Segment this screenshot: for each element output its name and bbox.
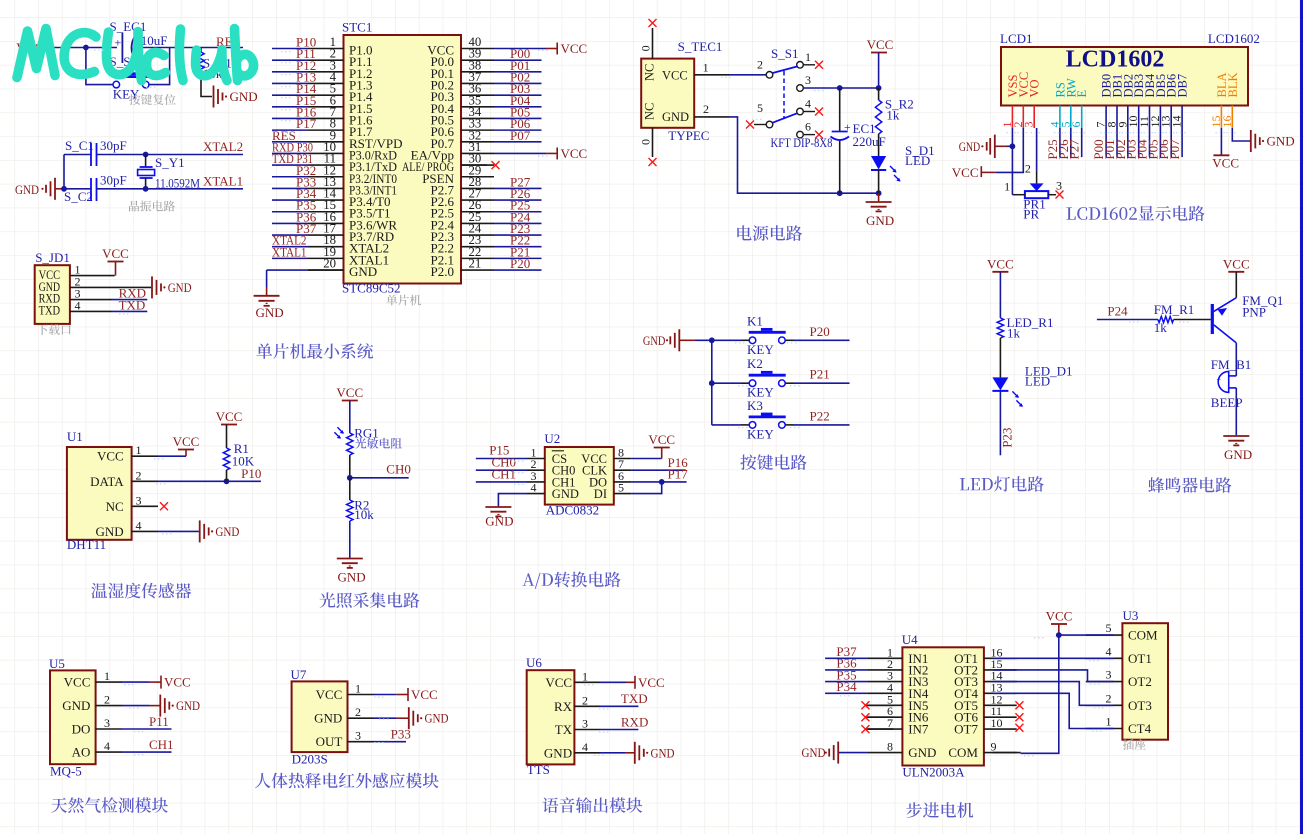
svg-text:ADC0832: ADC0832 bbox=[546, 503, 599, 518]
wire U4 pin8 to GND bbox=[838, 752, 868, 754]
svg-text:GND: GND bbox=[230, 89, 258, 104]
svg-text:VCC: VCC bbox=[648, 432, 675, 447]
wire mcu pin 20 GND bbox=[267, 269, 308, 271]
caption mcu gray bbox=[386, 295, 421, 306]
svg-text:LCD1: LCD1 bbox=[1000, 31, 1033, 46]
svg-text:TXD: TXD bbox=[119, 298, 146, 313]
svg-text:VCC: VCC bbox=[97, 449, 124, 464]
svg-text:XTAL1: XTAL1 bbox=[272, 244, 307, 259]
wire lcd pin1 VSS to GND bbox=[1011, 128, 1013, 146]
junction XTAL2 node bbox=[143, 152, 149, 158]
svg-text:GND: GND bbox=[176, 698, 200, 713]
svg-text:5: 5 bbox=[1106, 621, 1112, 635]
caption light collection circuit bbox=[320, 592, 420, 608]
svg-text:VCC: VCC bbox=[561, 41, 588, 56]
power port GND (U1) bbox=[199, 520, 201, 542]
power port VCC (mcu pin40) bbox=[546, 48, 557, 50]
svg-text:LED: LED bbox=[1025, 373, 1050, 388]
wire reset node down to key switch S_S2 bbox=[86, 48, 114, 85]
svg-text:OT3: OT3 bbox=[1128, 698, 1152, 713]
wire mcu right pin 39 net P00 bbox=[494, 59, 542, 61]
svg-text:30pF: 30pF bbox=[100, 173, 127, 188]
svg-text:P20: P20 bbox=[810, 324, 830, 339]
svg-text:TXD: TXD bbox=[621, 691, 648, 706]
wire P24 to FM_R1 bbox=[1097, 319, 1158, 321]
wire U6 pin2 net TXD bbox=[600, 705, 638, 707]
svg-text:GND: GND bbox=[802, 745, 826, 760]
svg-text:NC: NC bbox=[643, 103, 657, 120]
power port GND (reset circuit) bbox=[213, 86, 215, 108]
svg-text:1: 1 bbox=[1004, 179, 1010, 193]
mcu pin 30 no-connect X bbox=[461, 164, 487, 166]
capacitor EC1 220uF bbox=[839, 88, 841, 131]
caption crystal circuit gray bbox=[129, 201, 175, 212]
wire U2 pin5 up to pin6 bbox=[632, 482, 662, 494]
svg-text:OT2: OT2 bbox=[1128, 674, 1152, 689]
svg-text:GND: GND bbox=[866, 213, 894, 228]
svg-text:TTS: TTS bbox=[527, 762, 550, 777]
caption reset circuit gray bbox=[129, 94, 176, 105]
wire U2 pin2 net CH0 bbox=[476, 469, 527, 471]
power port GND (mcu) bbox=[266, 287, 268, 296]
wire VCC to LED_R1 bbox=[999, 272, 1001, 318]
svg-text:E: E bbox=[1075, 90, 1089, 98]
U4 pin10 no-connect X bbox=[1015, 724, 1023, 732]
svg-text:LED: LED bbox=[905, 153, 930, 168]
wire mcu right pin 22 net P21 bbox=[494, 257, 542, 259]
power port GND (S_JD1) bbox=[151, 276, 153, 298]
wire U4 pin9 COM stub bbox=[993, 752, 1021, 754]
wire S_C2 to XTAL1 bbox=[97, 188, 244, 190]
wire U2 pin1 net P15 bbox=[476, 458, 527, 460]
svg-text:20: 20 bbox=[323, 257, 336, 271]
svg-text:10k: 10k bbox=[354, 507, 374, 522]
junction key K2 bbox=[709, 380, 715, 386]
svg-text:S_Y1: S_Y1 bbox=[155, 155, 185, 170]
logo MCUclub watermark bbox=[17, 29, 254, 81]
lcd LCD1602 body bbox=[1001, 47, 1248, 106]
wire S_EC1 to RES net bbox=[135, 47, 244, 49]
wire U2 pin3 net CH1 bbox=[476, 481, 527, 483]
svg-text:NC: NC bbox=[106, 499, 124, 514]
wire U6 pin3 net RXD bbox=[600, 729, 638, 731]
svg-text:10K: 10K bbox=[232, 453, 255, 468]
mcu pin 29 stub bbox=[461, 176, 487, 178]
pin 2 S_JD1 bbox=[70, 286, 151, 288]
svg-text:VCC: VCC bbox=[102, 246, 129, 261]
svg-text:1: 1 bbox=[1106, 715, 1112, 729]
svg-text:STC89C52: STC89C52 bbox=[342, 281, 401, 296]
pin 1 S_JD1 bbox=[70, 275, 115, 277]
wire U5 pin3 net P11 bbox=[122, 728, 172, 730]
svg-text:VCC: VCC bbox=[336, 385, 363, 400]
svg-text:GND: GND bbox=[168, 280, 192, 295]
junction EC1 top bbox=[837, 85, 843, 91]
svg-text:VCC: VCC bbox=[173, 434, 200, 449]
wire mcu left pin 9 net RES bbox=[272, 141, 308, 143]
wire mcu pin 31 VCC bbox=[494, 152, 546, 154]
svg-text:4: 4 bbox=[136, 518, 142, 532]
wire R2 to GND bbox=[349, 521, 351, 558]
svg-text:9: 9 bbox=[991, 740, 997, 754]
wire S_TEC1 pin1 to switch bbox=[694, 74, 729, 76]
wire U2 pin7 net P16 bbox=[632, 469, 686, 471]
junction lcd GND node bbox=[1010, 143, 1016, 149]
svg-text:VO: VO bbox=[1028, 79, 1042, 97]
wire U2 pin4 to GND bbox=[498, 494, 527, 507]
svg-text:GND: GND bbox=[96, 524, 124, 539]
led LED_D1 emission arrows bbox=[1012, 391, 1023, 407]
svg-text:P20: P20 bbox=[510, 256, 530, 271]
svg-text:10: 10 bbox=[991, 716, 1003, 730]
svg-text:4: 4 bbox=[805, 97, 811, 111]
wire FM_R1 to base bbox=[1174, 319, 1211, 321]
wire U4 net P37 bbox=[825, 657, 868, 659]
wire U3 pin5 COM to VCC bbox=[1059, 634, 1114, 636]
svg-text:P33: P33 bbox=[391, 727, 411, 742]
svg-text:P23: P23 bbox=[999, 428, 1014, 448]
svg-text:VCC: VCC bbox=[952, 165, 979, 180]
svg-text:CH0: CH0 bbox=[386, 462, 411, 477]
caption lcd display circuit bbox=[1067, 206, 1205, 222]
wire mcu right pin 38 net P01 bbox=[494, 71, 542, 73]
svg-text:4: 4 bbox=[531, 481, 537, 495]
svg-text:P17: P17 bbox=[296, 116, 317, 131]
wire U2 pin8 to VCC bbox=[632, 458, 662, 460]
wire mcu right pin 35 net P04 bbox=[494, 106, 542, 108]
power port VCC (lcd pin15) bbox=[1213, 154, 1229, 156]
svg-text:KEY: KEY bbox=[747, 342, 774, 357]
svg-text:OT7: OT7 bbox=[954, 722, 978, 737]
svg-text:1k: 1k bbox=[1154, 320, 1168, 335]
svg-text:+: + bbox=[115, 36, 122, 50]
svg-text:GND: GND bbox=[959, 139, 981, 154]
junction CH0 node bbox=[347, 475, 353, 481]
svg-text:1: 1 bbox=[104, 669, 110, 683]
wire GND to crystal node bbox=[55, 188, 64, 190]
svg-text:S_C1: S_C1 bbox=[65, 138, 94, 153]
svg-text:3: 3 bbox=[1106, 668, 1112, 682]
svg-text:P17: P17 bbox=[668, 467, 689, 482]
wire S_S1 pin3 to VCC rail bbox=[804, 87, 879, 89]
wire lcd pin3 VO to potentiometer bbox=[1036, 128, 1038, 171]
svg-text:VCC: VCC bbox=[662, 69, 688, 83]
svg-text:4: 4 bbox=[1106, 644, 1112, 658]
svg-text:5: 5 bbox=[618, 481, 624, 495]
wire mcu left pin 15 net P35 bbox=[272, 211, 308, 213]
power port GND (U6) bbox=[625, 752, 634, 754]
svg-text:PNP: PNP bbox=[1242, 304, 1266, 319]
wire mcu left pin 16 net P36 bbox=[272, 222, 308, 224]
svg-text:XTAL2: XTAL2 bbox=[203, 139, 243, 154]
junction XTAL1 node bbox=[143, 186, 149, 192]
S_TEC1 top pin 0 no-connect bbox=[652, 28, 654, 59]
power port VCC (U6) bbox=[626, 681, 635, 683]
svg-text:U4: U4 bbox=[902, 632, 918, 647]
svg-text:KFT DIP-8X8: KFT DIP-8X8 bbox=[771, 136, 833, 150]
wire mcu left pin 18 net XTAL2 bbox=[272, 246, 308, 248]
caption stepper motor bbox=[906, 802, 973, 818]
svg-text:VCC: VCC bbox=[1212, 155, 1239, 170]
wire S_TEC1 pin2 GND route bbox=[694, 116, 729, 118]
svg-text:GND: GND bbox=[338, 570, 366, 585]
svg-text:10uF: 10uF bbox=[141, 33, 168, 48]
svg-text:GND: GND bbox=[215, 524, 239, 539]
svg-text:S_S1: S_S1 bbox=[771, 46, 798, 61]
svg-text:OUT: OUT bbox=[316, 734, 343, 749]
svg-text:4: 4 bbox=[75, 298, 81, 312]
wire LED_R1 to LED_D1 bbox=[999, 338, 1001, 377]
svg-text:6: 6 bbox=[805, 120, 811, 134]
wire mcu left pin 19 net XTAL1 bbox=[272, 257, 308, 259]
wire mcu left pin 13 net P33 bbox=[272, 187, 308, 189]
svg-text:U7: U7 bbox=[291, 667, 307, 682]
svg-text:VCC: VCC bbox=[987, 256, 1014, 271]
svg-text:1k: 1k bbox=[886, 108, 900, 123]
power port GND (lcd pin16) bbox=[1250, 130, 1252, 152]
wire GND to key bus bbox=[679, 339, 695, 341]
net labels P25 P26 P27 rotated bbox=[1059, 128, 1061, 157]
svg-text:P24: P24 bbox=[1107, 304, 1128, 319]
svg-text:3: 3 bbox=[136, 493, 142, 507]
S_TEC1 bottom pin 0 no-connect bbox=[652, 128, 654, 157]
pr1 pin3 no-connect X bbox=[1048, 194, 1056, 196]
U4 pin7 no-connect X bbox=[866, 728, 893, 730]
svg-text:GND: GND bbox=[485, 514, 513, 529]
svg-text:VCC: VCC bbox=[64, 675, 91, 690]
svg-text:VCC: VCC bbox=[638, 675, 665, 690]
U4 pin5 no-connect X bbox=[866, 704, 893, 706]
svg-text:3: 3 bbox=[582, 717, 588, 731]
wire U1 pin2 DATA to P10 bbox=[158, 480, 261, 482]
junction VCC COM node bbox=[1056, 632, 1062, 638]
svg-text:NC: NC bbox=[643, 64, 657, 81]
svg-text:VCC: VCC bbox=[545, 675, 572, 690]
wire mcu right pin 28 net P27 bbox=[494, 187, 542, 189]
svg-text:GND: GND bbox=[256, 305, 284, 320]
wire K3 to net P22 bbox=[786, 424, 794, 426]
wire mcu right pin 32 net P07 bbox=[494, 141, 542, 143]
svg-text:GND: GND bbox=[314, 711, 342, 726]
pr1 pin1 wire to GND net bbox=[1012, 194, 1025, 196]
svg-text:P07: P07 bbox=[1167, 139, 1182, 160]
svg-text:7: 7 bbox=[887, 716, 893, 730]
junction key K1 bbox=[709, 337, 715, 343]
junction S_R2 top bbox=[876, 85, 882, 91]
wire VCC to RG1 bbox=[349, 401, 351, 434]
potentiometer PR1 bbox=[1036, 171, 1038, 184]
wire lcd pin15 BLA to VCC bbox=[1220, 128, 1222, 155]
svg-text:VCC: VCC bbox=[1046, 609, 1073, 624]
wire U5 pin2 to GND bbox=[122, 705, 149, 707]
wire mcu right pin 25 net P24 bbox=[494, 222, 542, 224]
wire node to CH0 label bbox=[350, 477, 409, 479]
wire U4 net P35 bbox=[825, 681, 868, 683]
svg-text:XTAL1: XTAL1 bbox=[203, 174, 243, 189]
svg-text:DATA: DATA bbox=[90, 474, 124, 489]
svg-text:RG1: RG1 bbox=[354, 425, 379, 440]
wire VCC to reset node bbox=[47, 47, 117, 49]
svg-text:1k: 1k bbox=[1007, 325, 1021, 340]
svg-text:TXD: TXD bbox=[39, 303, 61, 317]
svg-text:3: 3 bbox=[104, 716, 110, 730]
wire U7 pin1 to VCC bbox=[374, 694, 397, 696]
svg-text:D203S: D203S bbox=[292, 752, 328, 767]
wire U2 pin6 net P17 bbox=[632, 481, 687, 483]
sheet border right edge bbox=[1300, 0, 1303, 834]
caption led circuit bbox=[960, 476, 1044, 492]
wire bus to K1 bbox=[712, 339, 741, 341]
svg-text:OT1: OT1 bbox=[1128, 651, 1152, 666]
wire U7 pin3 net P33 bbox=[374, 741, 406, 743]
junction DO DI bbox=[659, 479, 665, 485]
wire mcu right pin 37 net P02 bbox=[494, 82, 542, 84]
wire OT1 row16 to U3 pin4 bbox=[993, 657, 1114, 659]
wire RG1 to node CH0 bbox=[349, 455, 351, 478]
wire mcu left pin 11 net TXD P31 bbox=[272, 164, 308, 166]
svg-text:GND: GND bbox=[1224, 447, 1252, 462]
svg-text:8: 8 bbox=[887, 740, 893, 754]
svg-text:2: 2 bbox=[703, 102, 709, 116]
svg-text:1: 1 bbox=[355, 682, 361, 696]
svg-text:COM: COM bbox=[1128, 628, 1158, 643]
svg-text:GND: GND bbox=[349, 264, 377, 279]
wire mcu left pin 2 net P11 bbox=[272, 59, 308, 61]
caption voice output module bbox=[543, 797, 643, 813]
power port GND (light) bbox=[337, 558, 363, 560]
junction crystal bottom-left bbox=[61, 186, 67, 192]
svg-text:P07: P07 bbox=[510, 128, 531, 143]
S_S1 lever pin5 to pin4 bbox=[773, 113, 797, 122]
svg-text:GND: GND bbox=[15, 182, 39, 197]
svg-text:CT4: CT4 bbox=[1128, 721, 1152, 736]
wire mcu left pin 1 net P10 bbox=[272, 48, 308, 50]
svg-text:3: 3 bbox=[355, 729, 361, 743]
power port VCC (U7) bbox=[397, 694, 408, 696]
svg-text:30pF: 30pF bbox=[100, 138, 127, 153]
svg-text:FM_B1: FM_B1 bbox=[1211, 357, 1251, 372]
svg-text:RXD: RXD bbox=[621, 714, 648, 729]
svg-text:VCC: VCC bbox=[561, 146, 588, 161]
svg-text:S_JD1: S_JD1 bbox=[35, 250, 70, 265]
svg-text:P21: P21 bbox=[810, 367, 830, 382]
wire U6 pin1 to VCC bbox=[600, 681, 626, 683]
svg-text:S_TEC1: S_TEC1 bbox=[678, 39, 723, 54]
wire mcu left pin 17 net P37 bbox=[272, 234, 308, 236]
wire key switch S_S2 to RES wire bbox=[148, 48, 169, 85]
svg-text:S_C2: S_C2 bbox=[64, 189, 93, 204]
svg-text:2: 2 bbox=[1106, 691, 1112, 705]
wire lcd pin2 VCC bbox=[995, 128, 1023, 172]
svg-text:5: 5 bbox=[757, 101, 763, 115]
svg-text:MQ-5: MQ-5 bbox=[50, 764, 82, 779]
wire OT4 row13 to U3 pin1 bbox=[993, 693, 1114, 728]
power port GND (U7) bbox=[397, 717, 408, 719]
svg-text:BEEP: BEEP bbox=[1211, 395, 1243, 410]
S_S1 pin1 no-connect X bbox=[804, 64, 815, 66]
label photoresistor bbox=[355, 438, 402, 449]
wire mcu left pin 7 net P16 bbox=[272, 117, 308, 119]
wire U6 pin4 to GND bbox=[600, 752, 625, 754]
power port VCC (U5) bbox=[149, 681, 161, 683]
svg-text:KEY: KEY bbox=[747, 426, 774, 441]
S_S1 gang dashed link bbox=[783, 71, 785, 119]
svg-text:TYPEC: TYPEC bbox=[668, 128, 709, 143]
svg-text:DI: DI bbox=[594, 487, 607, 501]
svg-text:VCC: VCC bbox=[411, 687, 438, 702]
wire VCC rail down to U4 COM bbox=[1021, 635, 1059, 753]
svg-text:4: 4 bbox=[104, 739, 110, 753]
led S_D1 emission arrows bbox=[890, 166, 901, 182]
wire VCC down to rail bbox=[878, 53, 880, 89]
wire U4 net P36 bbox=[825, 669, 868, 671]
wire S_C1 to XTAL2 bbox=[97, 154, 244, 156]
svg-text:220uF: 220uF bbox=[853, 134, 886, 149]
U4 pin6 no-connect X bbox=[866, 716, 893, 718]
wire lcd pin16 BLK to GND bbox=[1232, 128, 1250, 141]
svg-text:IN7: IN7 bbox=[908, 722, 929, 737]
svg-text:3: 3 bbox=[805, 73, 811, 87]
svg-text:2: 2 bbox=[757, 58, 763, 72]
caption socket gray bbox=[1123, 739, 1146, 750]
wire mcu left pin 12 net P32 bbox=[272, 176, 308, 178]
svg-text:GND: GND bbox=[425, 711, 449, 726]
U4 pin12 no-connect X bbox=[1015, 701, 1023, 709]
svg-text:P11: P11 bbox=[149, 714, 169, 729]
wire U5 pin1 to VCC bbox=[122, 681, 149, 683]
caption key circuit bbox=[740, 454, 806, 470]
svg-text:GND: GND bbox=[643, 333, 666, 348]
svg-text:U2: U2 bbox=[544, 431, 560, 446]
wire mcu right pin 33 net P06 bbox=[494, 129, 542, 131]
svg-text:DO: DO bbox=[72, 722, 91, 737]
svg-text:FM_R1: FM_R1 bbox=[1154, 302, 1194, 317]
key bus vertical wire bbox=[711, 340, 713, 425]
grid snap dots decorations bbox=[94, 49, 106, 51]
svg-text:GND: GND bbox=[62, 698, 90, 713]
svg-text:K3: K3 bbox=[747, 398, 763, 413]
svg-text:U3: U3 bbox=[1123, 608, 1139, 623]
svg-text:2: 2 bbox=[104, 693, 110, 707]
junction EC1 bottom bbox=[837, 190, 843, 196]
net labels P00-P07 rotated bbox=[1105, 128, 1107, 157]
wire buzzer to GND bbox=[1235, 388, 1237, 435]
svg-text:VCC: VCC bbox=[1223, 256, 1250, 271]
svg-text:TX: TX bbox=[555, 722, 573, 737]
pin 3 S_JD1 RXD bbox=[70, 299, 112, 301]
svg-text:U5: U5 bbox=[49, 656, 65, 671]
wire U7 pin2 to GND bbox=[374, 717, 397, 719]
U1 pin3 no-connect X bbox=[160, 502, 168, 510]
wire K1 to net P20 bbox=[786, 339, 794, 341]
power port VCC (mcu pin31) bbox=[546, 152, 557, 154]
svg-text:P22: P22 bbox=[810, 408, 830, 423]
svg-text:LCD1602: LCD1602 bbox=[1208, 31, 1260, 46]
power port GND (buzzer) bbox=[1223, 435, 1249, 437]
svg-text:4: 4 bbox=[582, 740, 588, 754]
svg-text:COM: COM bbox=[948, 745, 978, 760]
caption AD conversion circuit bbox=[523, 572, 621, 589]
svg-text:U1: U1 bbox=[67, 429, 83, 444]
junction R1 bottom bbox=[224, 478, 230, 484]
power port GND (adc) bbox=[485, 506, 511, 508]
svg-text:VCC: VCC bbox=[216, 409, 243, 424]
svg-text:VCC: VCC bbox=[164, 675, 191, 690]
caption power circuit bbox=[737, 225, 802, 241]
svg-text:+: + bbox=[1217, 375, 1222, 384]
wire crystal left vertical bbox=[63, 155, 65, 189]
svg-text:0: 0 bbox=[639, 45, 653, 51]
